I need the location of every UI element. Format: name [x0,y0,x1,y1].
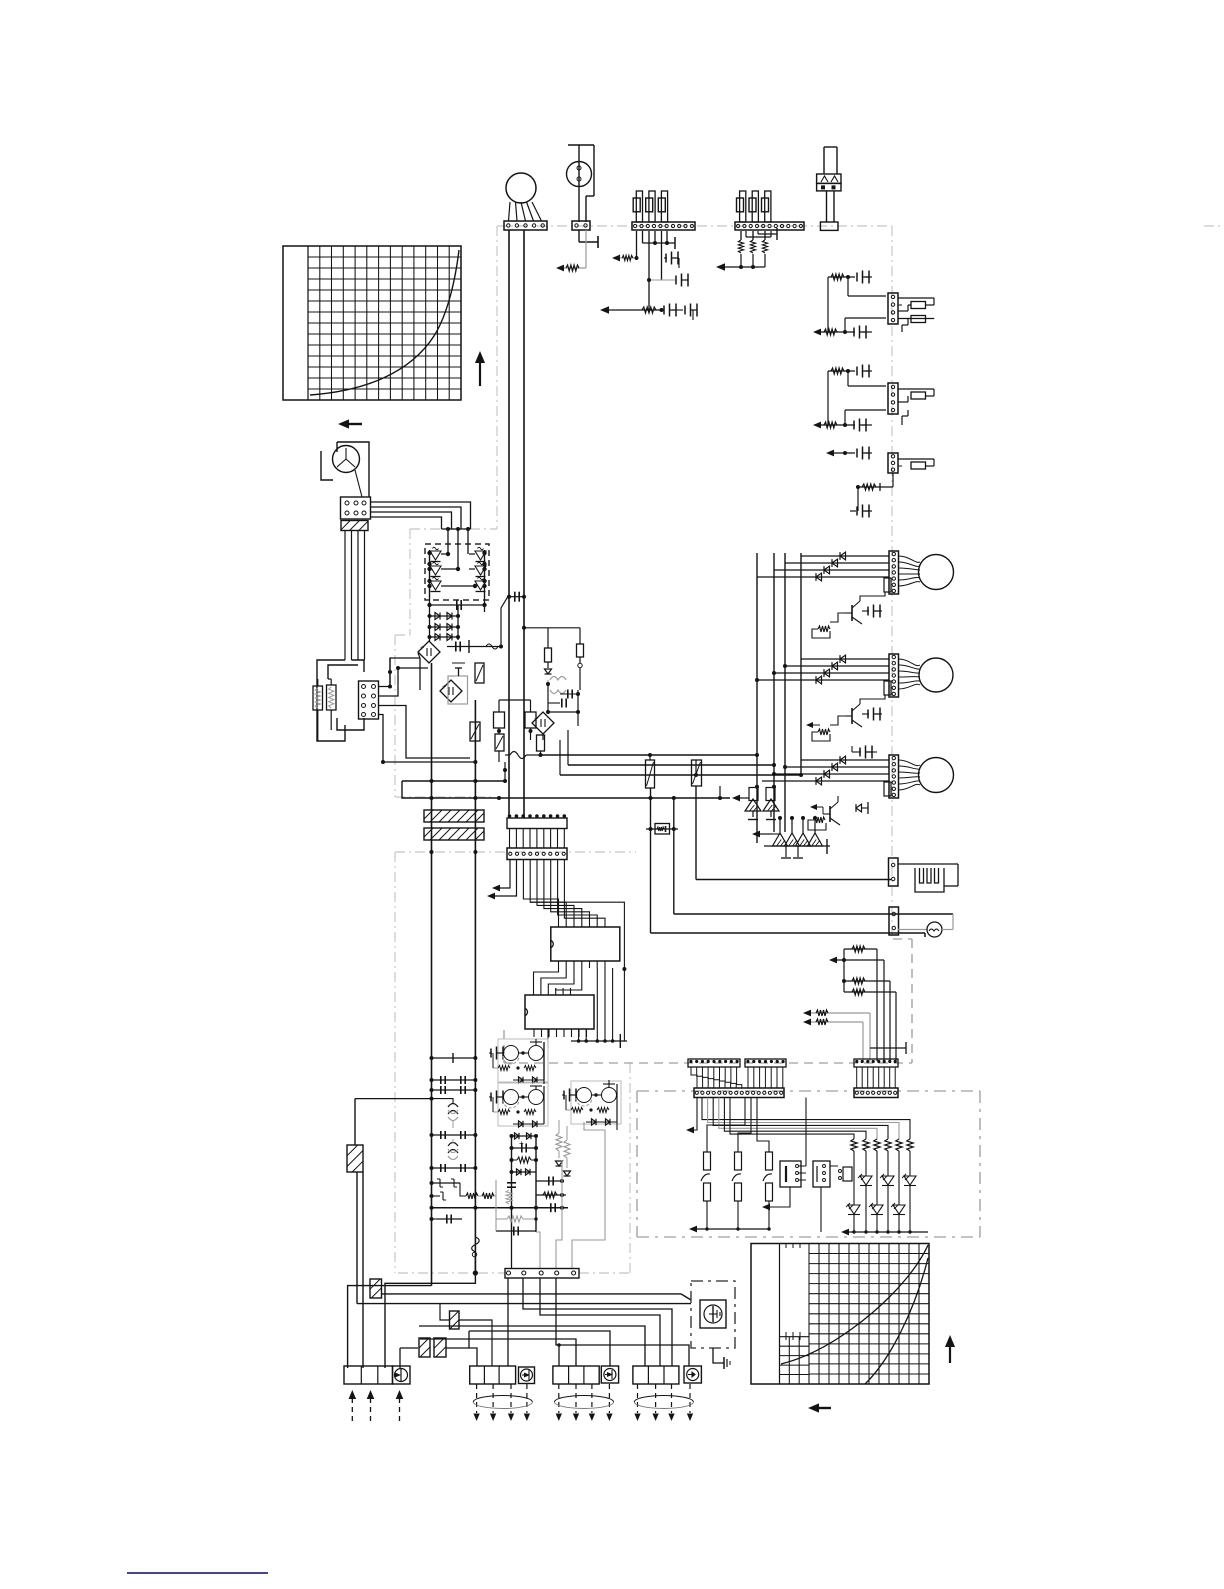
svg-text:+: + [519,1139,524,1148]
svg-text:+: + [534,716,538,723]
svg-text:+: + [420,645,424,652]
svg-text:+: + [442,684,446,691]
